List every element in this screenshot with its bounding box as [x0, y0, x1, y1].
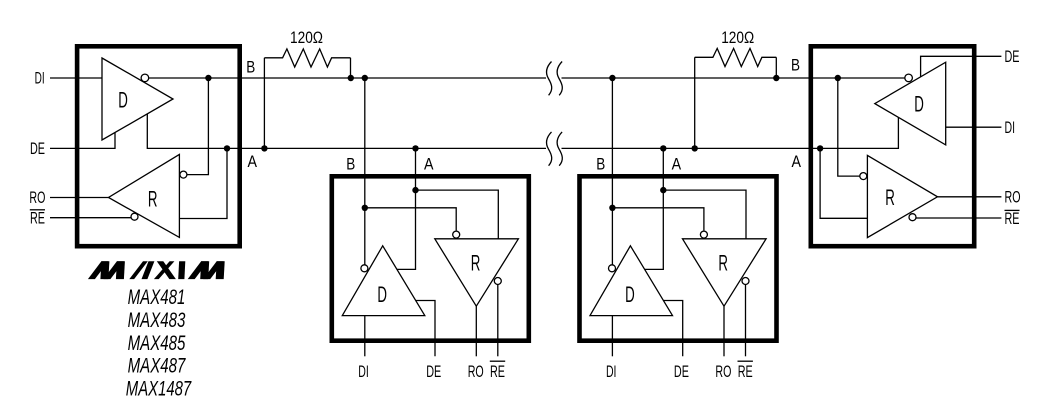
svg-text:MAX1487: MAX1487 [126, 377, 192, 400]
svg-text:DE: DE [674, 362, 689, 381]
receiver R U2 [435, 239, 519, 306]
overline RE U1 [30, 209, 45, 211]
junction node B U4 [835, 75, 841, 81]
junction node B U1 [205, 75, 211, 81]
junction RT1 on bus A [261, 145, 267, 151]
wire RT1 left lead to bus A [263, 58, 265, 149]
svg-text:DE: DE [1005, 47, 1020, 66]
receiver R U1 [109, 154, 180, 237]
svg-text:DE: DE [30, 139, 45, 158]
bubble RE input U1 [131, 213, 138, 220]
bubble driver output B U2 [361, 265, 368, 272]
driver D U4 [875, 62, 946, 145]
wire pin DI U2 [364, 316, 366, 357]
wire DI U4 [946, 126, 1002, 128]
wire pin RO U2 [475, 306, 477, 356]
wire RT1 right lead to bus B [350, 58, 352, 78]
wire pin RO U3 [723, 306, 725, 356]
wire DE U4 [921, 56, 1002, 77]
svg-text:DI: DI [1005, 118, 1016, 137]
svg-text:B: B [346, 155, 355, 174]
bubble RE input U4 [909, 214, 916, 221]
wire A node to receiver input U1 [179, 148, 227, 218]
junction on bus B for U3 [609, 75, 615, 81]
svg-text:DE: DE [426, 362, 441, 381]
wire RT2 right lead to bus B [775, 57, 777, 78]
svg-text:D: D [914, 92, 924, 117]
MAXIM logo [88, 261, 225, 279]
svg-text:120Ω: 120Ω [721, 28, 754, 47]
junction node A U1 [224, 145, 230, 151]
svg-text:DI: DI [358, 362, 369, 381]
wire B node to receiver input U4 [838, 78, 860, 176]
svg-text:RE: RE [490, 362, 505, 381]
svg-text:B: B [596, 155, 605, 174]
svg-text:D: D [377, 282, 387, 307]
svg-text:D: D [625, 282, 635, 307]
bubble driver output B U3 [609, 265, 616, 272]
wire pin DE U3 [663, 301, 683, 357]
svg-text:RO: RO [468, 362, 484, 381]
svg-text:A: A [672, 155, 682, 174]
svg-text:A: A [792, 152, 802, 171]
wire RO U1 [50, 197, 109, 199]
svg-text:R: R [148, 186, 158, 211]
bubble RE input U3 [742, 278, 749, 285]
svg-text:DI: DI [35, 69, 45, 88]
svg-text:RO: RO [1005, 187, 1021, 206]
wire bus A right segment [562, 117, 899, 148]
resistor RT1 120ohm [264, 49, 350, 67]
svg-text:MAX485: MAX485 [128, 332, 186, 355]
svg-text:R: R [885, 185, 895, 210]
wire A node to receiver input U4 [820, 148, 867, 218]
svg-text:MAX481: MAX481 [128, 286, 186, 309]
wire bus B branch to U2 driver [364, 78, 366, 265]
svg-text:DI: DI [606, 362, 617, 381]
junction on bus A for U2 [412, 145, 418, 151]
wire bus B branch to U3 driver [611, 78, 613, 265]
junction node A U4 [817, 145, 823, 151]
junction internal A U2 [412, 187, 418, 193]
wire internal A to receiver input U2 [416, 190, 499, 239]
junction RT1 on bus B [348, 75, 354, 81]
bubble receiver input B U2 [453, 231, 460, 238]
cable break marks bus A [546, 132, 562, 166]
wire RO U4 [938, 196, 1002, 198]
overline RE U4 [1005, 209, 1020, 211]
junction on bus B for U2 [362, 75, 368, 81]
svg-text:R: R [718, 251, 728, 276]
wire pin RE U3 [745, 285, 747, 357]
driver D U1 [102, 58, 173, 140]
wire DE U1 [50, 133, 115, 149]
bubble driver input B U4 [905, 74, 913, 82]
svg-text:A: A [248, 152, 258, 171]
svg-text:MAX487: MAX487 [128, 354, 187, 377]
wire bus A branch to U3 [645, 148, 664, 269]
junction internal B U2 [362, 205, 368, 211]
transceiver U3 box [580, 176, 777, 340]
receiver R U4 [867, 155, 937, 237]
wire B node to receiver input U1 [187, 78, 208, 175]
overline RE U2 [490, 360, 505, 362]
cable break marks bus B [546, 62, 562, 96]
wire bus A branch to U2 [397, 148, 416, 269]
svg-text:RE: RE [738, 362, 753, 381]
wire pin RE U2 [497, 285, 499, 357]
svg-text:B: B [246, 58, 255, 77]
bubble receiver input B U3 [700, 231, 707, 238]
wire RE U4 [916, 217, 1002, 219]
bubble receiver input B U1 [180, 171, 187, 178]
wire internal A to receiver input U3 [663, 190, 746, 239]
junction on bus A for U3 [660, 145, 666, 151]
wire driver output A U1 and bus A left segment [147, 114, 546, 148]
svg-text:R: R [471, 251, 481, 276]
wire internal B to receiver input U2 [365, 208, 456, 231]
transceiver U1 box [77, 46, 240, 246]
svg-text:B: B [791, 55, 800, 74]
wire internal B to receiver input U3 [612, 208, 704, 231]
receiver R U3 [683, 239, 767, 306]
junction internal B U3 [609, 205, 615, 211]
transceiver U4 box [811, 46, 974, 246]
bubble driver output B U1 [141, 74, 149, 82]
svg-text:120Ω: 120Ω [290, 28, 323, 47]
svg-text:RO: RO [715, 362, 731, 381]
overline RE U3 [738, 360, 753, 362]
driver D U3 [590, 246, 673, 316]
svg-text:D: D [118, 87, 128, 112]
bubble RE input U2 [494, 278, 501, 285]
svg-text:RO: RO [29, 188, 45, 207]
transceiver U2 box [332, 176, 529, 340]
wire RE U1 [50, 217, 131, 219]
bubble receiver input B U4 [860, 173, 867, 180]
wire pin DI U3 [611, 316, 613, 357]
wire pin DE U2 [415, 301, 435, 357]
svg-text:RE: RE [30, 208, 45, 227]
svg-text:RE: RE [1005, 209, 1020, 228]
wire bus B left segment [149, 77, 546, 79]
svg-text:MAX483: MAX483 [128, 309, 186, 332]
junction RT2 on bus A [692, 145, 698, 151]
wire RT2 left lead to bus A [694, 57, 696, 148]
junction RT2 on bus B [773, 75, 779, 81]
driver D U2 [342, 246, 425, 316]
junction internal A U3 [660, 187, 666, 193]
wire DI U1 [50, 77, 102, 79]
wire bus B right segment [562, 77, 905, 79]
resistor RT2 120ohm [695, 48, 777, 66]
svg-text:A: A [424, 155, 434, 174]
